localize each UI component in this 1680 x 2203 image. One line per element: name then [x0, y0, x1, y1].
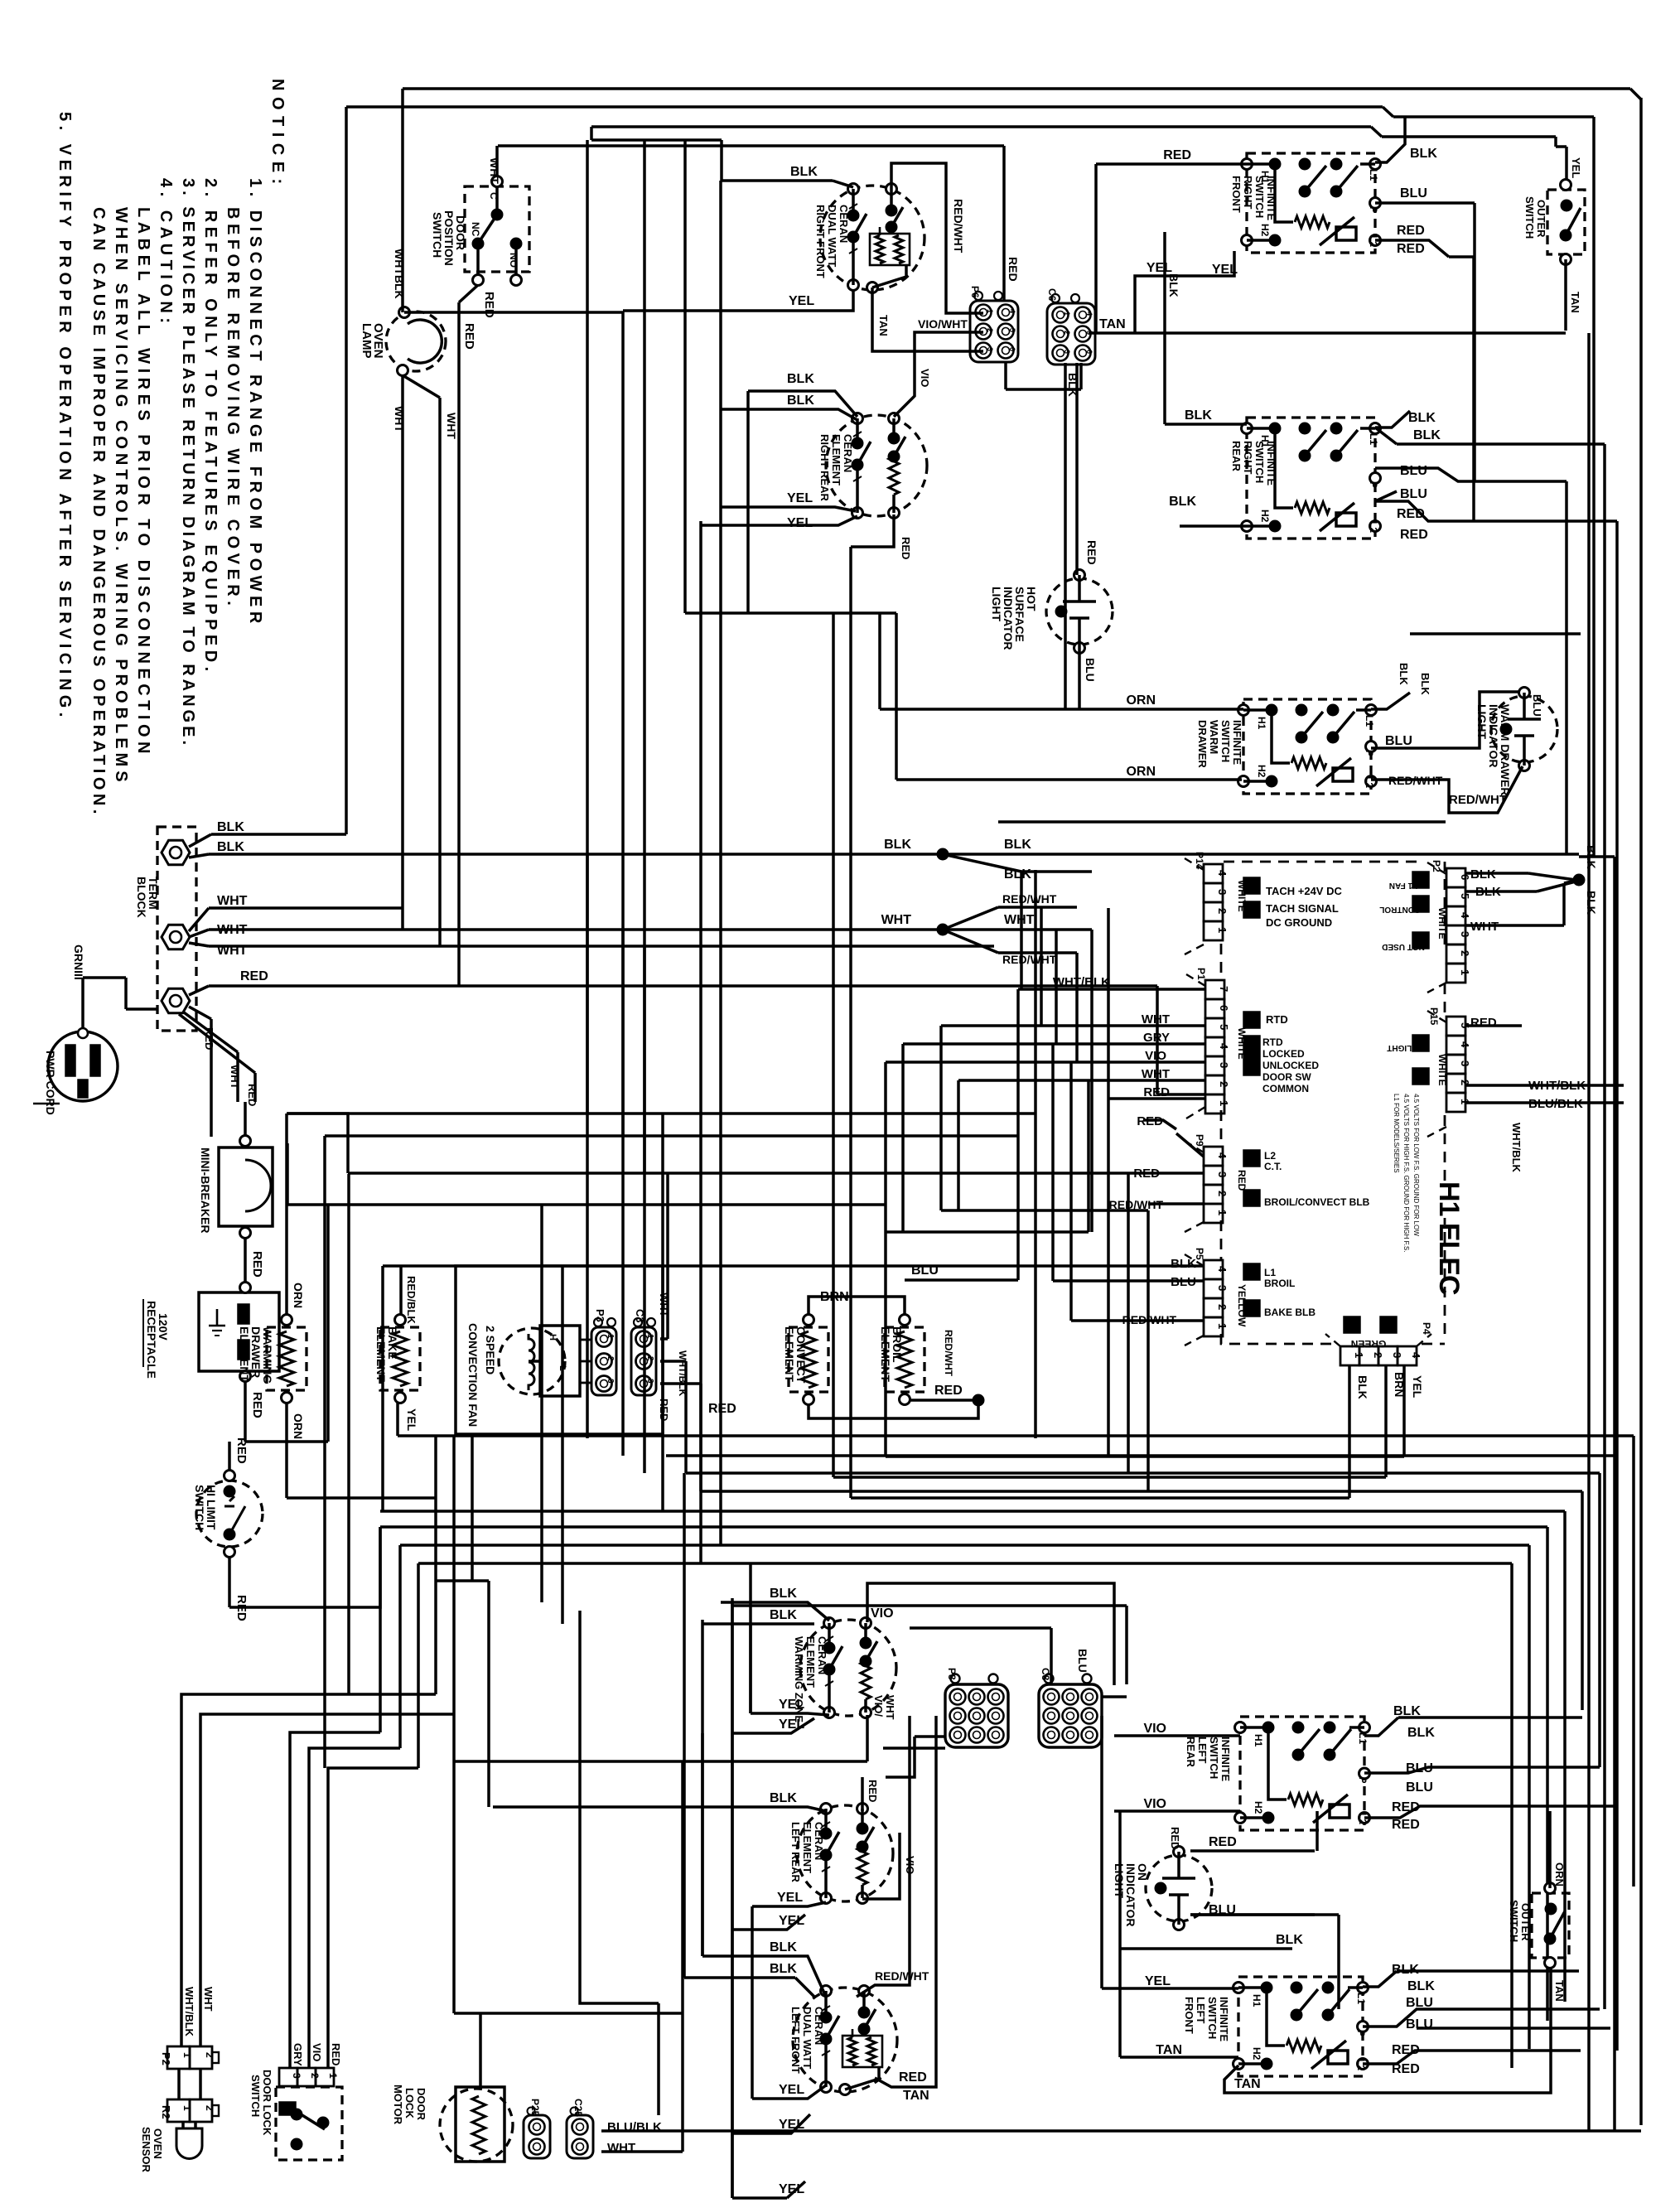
svg-text:CAN CAUSE IMPROPER AND DANGERO: CAN CAUSE IMPROPER AND DANGEROUS OPERATI… [89, 207, 108, 818]
svg-text:4: 4 [1008, 309, 1016, 313]
svg-text:1: 1 [986, 309, 994, 313]
svg-text:1: 1 [645, 1334, 654, 1339]
svg-text:ELEMENT: ELEMENT [804, 1636, 817, 1688]
svg-text:BLK: BLK [1407, 1726, 1435, 1740]
svg-text:CERAN: CERAN [813, 1822, 825, 1860]
svg-text:NOTICE:: NOTICE: [268, 79, 287, 191]
svg-text:4: 4 [1410, 1352, 1422, 1359]
svg-text:BLU: BLU [1084, 658, 1097, 682]
svg-text:5: 5 [1218, 1024, 1230, 1030]
svg-text:P: P [1364, 750, 1375, 756]
svg-text:LABEL ALL WIRES PRIOR TO DISCO: LABEL ALL WIRES PRIOR TO DISCONNECTION [134, 207, 152, 758]
svg-text:BLK: BLK [1004, 838, 1031, 852]
svg-text:H1: H1 [1256, 717, 1267, 730]
svg-text:BLU: BLU [1400, 186, 1427, 200]
svg-text:L1: L1 [1364, 715, 1375, 727]
svg-text:YEL: YEL [779, 2083, 804, 2097]
svg-text:TAN: TAN [1156, 2043, 1182, 2057]
svg-text:LEFT: LEFT [1196, 1737, 1209, 1764]
svg-text:WHT/BLK: WHT/BLK [1053, 975, 1110, 989]
svg-text:P: P [1357, 1777, 1369, 1784]
svg-text:MOTOR: MOTOR [392, 2085, 404, 2125]
svg-text:BLK: BLK [1066, 373, 1079, 397]
svg-text:GRY: GRY [292, 2043, 304, 2066]
svg-text:BEFORE REMOVING WIRE COVER.: BEFORE REMOVING WIRE COVER. [224, 207, 242, 610]
svg-text:BLU: BLU [1400, 464, 1427, 478]
svg-text:VIO: VIO [871, 1606, 894, 1621]
svg-text:VIO: VIO [1143, 1722, 1166, 1736]
svg-text:ELEMENT: ELEMENT [801, 1822, 813, 1873]
svg-text:2: 2 [1459, 950, 1471, 956]
svg-text:BROIL/CONVECT BLB: BROIL/CONVECT BLB [1264, 1196, 1370, 1208]
svg-text:DUAL WATT: DUAL WATT [801, 2007, 813, 2069]
svg-text:RED/WHT: RED/WHT [943, 1330, 954, 1377]
svg-text:RED: RED [1397, 224, 1425, 238]
svg-text:BLK: BLK [217, 820, 244, 834]
svg-text:CONVECTION FAN: CONVECTION FAN [466, 1323, 480, 1427]
svg-text:VIO/: VIO/ [872, 1695, 885, 1717]
svg-text:LAMP: LAMP [360, 323, 374, 359]
svg-text:BLK: BLK [770, 1962, 797, 1976]
svg-text:YEL: YEL [1145, 1974, 1171, 1988]
svg-text:INFINITE: INFINITE [1231, 720, 1243, 765]
svg-text:3: 3 [1459, 931, 1471, 937]
svg-text:BLK: BLK [1171, 1257, 1196, 1271]
svg-text:TAN: TAN [1234, 2077, 1261, 2091]
svg-text:2. REFER ONLY TO FEATURES EQUI: 2. REFER ONLY TO FEATURES EQUIPPED. [201, 178, 220, 676]
svg-text:VIO: VIO [919, 369, 931, 387]
svg-text:RED: RED [1392, 2062, 1420, 2076]
svg-text:RED/BLK: RED/BLK [405, 1276, 418, 1324]
svg-text:WHT: WHT [488, 157, 501, 184]
svg-text:FRONT: FRONT [1183, 1997, 1195, 2034]
svg-text:L1: L1 [1368, 169, 1379, 181]
svg-text:L1 FOR MODELS/SERIES: L1 FOR MODELS/SERIES [1393, 1094, 1400, 1173]
svg-text:RIGHT: RIGHT [1242, 176, 1254, 210]
svg-text:L1 FAN: L1 FAN [1389, 881, 1417, 890]
svg-text:P8: P8 [946, 1668, 958, 1680]
svg-text:WHT/BLK: WHT/BLK [1528, 1079, 1586, 1093]
svg-text:H2: H2 [1256, 765, 1267, 778]
svg-text:RIGHT: RIGHT [1242, 441, 1254, 475]
svg-text:RED/WHT: RED/WHT [875, 1969, 929, 1983]
svg-text:LOCKED: LOCKED [1262, 1048, 1305, 1060]
svg-text:BAKE BLB: BAKE BLB [1264, 1307, 1316, 1318]
svg-text:WHT: WHT [1004, 913, 1035, 927]
svg-text:BLK: BLK [1167, 273, 1180, 297]
svg-text:4: 4 [1216, 1152, 1229, 1159]
svg-text:SWITCH: SWITCH [431, 212, 444, 258]
svg-text:BLK: BLK [770, 1608, 797, 1622]
svg-text:ELEMENT: ELEMENT [830, 434, 842, 486]
svg-text:RED: RED [1392, 1818, 1420, 1832]
svg-text:DC GROUND: DC GROUND [1266, 916, 1332, 929]
svg-text:BLU: BLU [1400, 487, 1427, 501]
svg-text:BLK: BLK [1419, 673, 1431, 695]
svg-text:WHT: WHT [445, 413, 458, 439]
svg-text:RED: RED [934, 1384, 963, 1398]
svg-text:CERAN: CERAN [816, 1636, 828, 1674]
svg-text:BLK: BLK [884, 838, 911, 852]
svg-text:SWITCH: SWITCH [249, 2075, 262, 2117]
svg-text:INFINITE: INFINITE [1265, 441, 1277, 486]
svg-text:BLU: BLU [911, 1263, 939, 1278]
svg-text:BLU: BLU [1406, 1780, 1433, 1795]
svg-text:BLOCK: BLOCK [135, 877, 148, 918]
svg-text:2: 2 [1218, 1081, 1230, 1087]
svg-text:RED: RED [1163, 148, 1191, 162]
svg-text:4: 4 [1085, 312, 1093, 316]
svg-text:WHT: WHT [217, 894, 248, 908]
svg-text:P1: P1 [1195, 968, 1207, 980]
svg-text:6: 6 [1085, 350, 1093, 354]
svg-text:WHEN SERVICING CONTROLS. WIRIN: WHEN SERVICING CONTROLS. WIRING PROBLEMS [112, 207, 130, 786]
svg-text:YEL: YEL [779, 1698, 804, 1712]
svg-text:WHTBLK: WHTBLK [393, 249, 406, 299]
svg-text:SWITCH: SWITCH [1208, 1737, 1220, 1779]
svg-text:RED: RED [1169, 1827, 1181, 1849]
svg-text:BLU/BLK: BLU/BLK [1528, 1097, 1583, 1111]
svg-text:5. VERIFY PROPER OPERATION AFT: 5. VERIFY PROPER OPERATION AFTER SERVICI… [56, 112, 74, 722]
svg-text:WHITE: WHITE [1436, 907, 1448, 940]
svg-text:WHT: WHT [881, 913, 912, 927]
svg-text:SWITCH: SWITCH [1253, 441, 1266, 483]
svg-text:4: 4 [1216, 1266, 1229, 1273]
svg-text:RED/WHT: RED/WHT [952, 199, 965, 254]
svg-text:WHT: WHT [202, 1987, 215, 2012]
svg-text:RED: RED [1400, 528, 1428, 542]
svg-text:RED: RED [1007, 257, 1020, 282]
svg-text:BLK: BLK [1004, 867, 1031, 882]
svg-text:BLK: BLK [1407, 1979, 1435, 1993]
svg-text:C: C [488, 192, 500, 200]
svg-text:H1: H1 [1251, 1994, 1262, 2007]
svg-text:YEL: YEL [1411, 1375, 1424, 1399]
svg-text:2: 2 [645, 1356, 654, 1361]
svg-text:BLK: BLK [790, 165, 818, 179]
svg-text:WHITE: WHITE [1436, 1054, 1448, 1086]
svg-text:ORN: ORN [1553, 1862, 1566, 1887]
svg-text:BLK: BLK [1169, 495, 1196, 509]
svg-text:P: P [1355, 2030, 1367, 2036]
svg-text:H2: H2 [1259, 224, 1271, 237]
svg-text:TAN: TAN [877, 315, 890, 336]
svg-text:RED: RED [899, 2070, 927, 2085]
svg-text:CONTROL: CONTROL [1379, 905, 1420, 914]
svg-text:3: 3 [1218, 1062, 1230, 1068]
svg-text:3. SERVICER PLEASE RETURN DIAG: 3. SERVICER PLEASE RETURN DIAGRAM TO RAN… [179, 178, 197, 748]
svg-text:L1: L1 [1368, 433, 1379, 445]
svg-text:1. DISCONNECT RANGE FROM POWER: 1. DISCONNECT RANGE FROM POWER [246, 178, 264, 628]
svg-text:H2: H2 [1251, 2047, 1262, 2060]
svg-text:CERAN: CERAN [838, 205, 850, 243]
svg-text:RED: RED [234, 1437, 249, 1464]
svg-text:4.5 VOLTS FOR HIGH F.S. GROUND: 4.5 VOLTS FOR HIGH F.S. GROUND FOR HIGH … [1402, 1094, 1410, 1252]
svg-text:WHT/BLK: WHT/BLK [183, 1987, 196, 2037]
svg-text:TAN: TAN [1099, 317, 1126, 331]
svg-text:P: P [1368, 481, 1379, 488]
svg-text:1: 1 [1216, 927, 1229, 933]
svg-text:RED: RED [708, 1402, 736, 1416]
svg-text:3: 3 [645, 1379, 654, 1384]
svg-text:P2: P2 [160, 2052, 172, 2065]
svg-text:GRNIII: GRNIII [72, 944, 85, 980]
svg-text:6: 6 [1008, 347, 1016, 351]
svg-text:3: 3 [1216, 1172, 1229, 1177]
svg-text:P4: P4 [1421, 1322, 1432, 1335]
svg-text:BLK: BLK [1585, 891, 1598, 915]
svg-text:4: 4 [1459, 1041, 1471, 1048]
svg-text:RED: RED [1085, 540, 1098, 565]
svg-text:BLK: BLK [217, 840, 244, 854]
svg-text:SWITCH: SWITCH [1253, 176, 1266, 218]
svg-text:1: 1 [181, 2105, 193, 2111]
svg-text:5: 5 [1459, 893, 1471, 899]
svg-text:2: 2 [1063, 331, 1071, 335]
svg-text:DOOR LOCK: DOOR LOCK [261, 2070, 273, 2136]
svg-text:SWITCH: SWITCH [1206, 1997, 1219, 2039]
svg-text:TAN: TAN [1553, 1980, 1566, 2002]
svg-text:CERAN: CERAN [813, 2007, 825, 2045]
svg-text:RIGHT REAR: RIGHT REAR [818, 434, 831, 502]
svg-text:RIGHT FRONT: RIGHT FRONT [814, 205, 827, 278]
svg-text:3: 3 [1459, 1060, 1471, 1066]
svg-text:TAN: TAN [1569, 292, 1581, 313]
svg-text:INFINITE: INFINITE [1265, 176, 1277, 220]
svg-text:ORN: ORN [292, 1283, 305, 1308]
svg-text:RED: RED [246, 1084, 258, 1106]
svg-text:RED: RED [203, 1027, 215, 1050]
svg-text:L2: L2 [1368, 521, 1379, 533]
svg-text:L1: L1 [1355, 1993, 1367, 2004]
svg-text:H1 ELEC: H1 ELEC [1433, 1181, 1465, 1295]
svg-text:TACH +24V DC: TACH +24V DC [1266, 885, 1342, 897]
svg-text:RED: RED [250, 1251, 264, 1278]
svg-text:YEL: YEL [777, 1891, 803, 1905]
svg-text:P: P [1368, 206, 1379, 213]
svg-text:YEL: YEL [789, 294, 814, 308]
svg-text:WHT: WHT [229, 1065, 241, 1089]
svg-text:L1: L1 [1357, 1732, 1369, 1744]
svg-text:3: 3 [1063, 350, 1071, 354]
svg-text:BLK: BLK [1356, 1375, 1369, 1399]
svg-text:3: 3 [606, 1379, 615, 1384]
svg-text:VIO: VIO [1143, 1797, 1166, 1811]
svg-text:BLK: BLK [787, 372, 814, 386]
svg-text:R2: R2 [160, 2105, 172, 2119]
svg-text:INFINITE: INFINITE [1218, 1997, 1230, 2041]
svg-text:L2: L2 [1364, 776, 1375, 788]
svg-text:COMMON: COMMON [1262, 1083, 1309, 1094]
svg-text:3: 3 [986, 347, 994, 351]
svg-text:RECEPTACLE: RECEPTACLE [145, 1301, 158, 1379]
svg-text:DOOR: DOOR [415, 2088, 427, 2121]
svg-text:LOCK: LOCK [403, 2088, 416, 2118]
svg-text:WARM: WARM [1208, 720, 1220, 754]
svg-text:6: 6 [1459, 874, 1471, 880]
svg-text:BLK: BLK [770, 1940, 797, 1954]
svg-text:P9: P9 [1194, 1134, 1205, 1147]
svg-text:C8: C8 [1040, 1668, 1051, 1681]
svg-text:TACH SIGNAL: TACH SIGNAL [1266, 902, 1339, 915]
svg-text:SWITCH: SWITCH [1219, 720, 1232, 762]
svg-text:NO: NO [508, 253, 519, 268]
svg-text:BLK: BLK [787, 394, 814, 408]
svg-text:RED: RED [1209, 1835, 1237, 1849]
svg-text:2 SPEED: 2 SPEED [484, 1326, 497, 1374]
svg-text:OUTER: OUTER [1535, 200, 1547, 238]
svg-text:BLK: BLK [770, 1791, 797, 1805]
svg-text:DRAWER: DRAWER [1196, 720, 1209, 768]
svg-text:1: 1 [1063, 312, 1071, 316]
svg-text:ORN: ORN [1126, 693, 1156, 708]
svg-text:1: 1 [327, 2073, 339, 2079]
svg-text:LEFT FRONT: LEFT FRONT [789, 2007, 802, 2074]
svg-text:3: 3 [1216, 889, 1229, 895]
svg-text:YEL: YEL [779, 1717, 804, 1732]
svg-text:BLU: BLU [1385, 734, 1412, 748]
svg-text:BLK: BLK [1413, 428, 1441, 442]
svg-text:ELEMENT: ELEMENT [238, 1326, 251, 1382]
svg-text:RED: RED [330, 2043, 342, 2065]
svg-text:RED: RED [1397, 242, 1425, 256]
svg-text:5: 5 [1008, 328, 1016, 332]
svg-text:OUTER: OUTER [1519, 1903, 1532, 1941]
svg-text:4: 4 [1218, 1043, 1230, 1050]
svg-text:BRN: BRN [1393, 1372, 1406, 1397]
svg-text:SENSOR: SENSOR [140, 2127, 152, 2173]
svg-text:RED: RED [867, 1780, 879, 1802]
svg-text:2: 2 [1216, 908, 1229, 914]
svg-text:2: 2 [986, 328, 994, 332]
svg-text:WHT: WHT [217, 944, 248, 958]
svg-text:6: 6 [1218, 1005, 1230, 1011]
svg-text:H2: H2 [1253, 1801, 1264, 1814]
svg-text:4.5 VOLTS FOR LOW F.S. GROUND: 4.5 VOLTS FOR LOW F.S. GROUND FOR LOW [1412, 1094, 1420, 1236]
svg-text:SWITCH: SWITCH [1523, 196, 1536, 239]
svg-text:L-LIGHT: L-LIGHT [1387, 1043, 1419, 1052]
svg-text:7: 7 [1218, 986, 1230, 992]
svg-text:LEFT REAR: LEFT REAR [789, 1822, 802, 1883]
svg-text:4: 4 [1216, 870, 1229, 877]
svg-text:REAR: REAR [1230, 441, 1243, 471]
svg-text:1: 1 [606, 1334, 615, 1339]
svg-text:2: 2 [606, 1356, 615, 1361]
svg-text:P3: P3 [594, 1309, 606, 1322]
svg-text:L1: L1 [1264, 1267, 1276, 1278]
svg-text:ELEMENT: ELEMENT [374, 1326, 388, 1382]
svg-text:BLK: BLK [770, 1587, 797, 1601]
svg-text:H1: H1 [1253, 1734, 1264, 1747]
svg-text:L2: L2 [1264, 1150, 1276, 1162]
svg-text:1: 1 [1216, 1323, 1229, 1329]
svg-text:ELEMENT: ELEMENT [783, 1326, 796, 1382]
svg-text:BROIL: BROIL [1264, 1278, 1295, 1289]
svg-text:4. CAUTION:: 4. CAUTION: [157, 178, 175, 328]
svg-text:RTD: RTD [1266, 1013, 1288, 1026]
svg-text:P6: P6 [969, 286, 981, 298]
svg-text:VIO: VIO [311, 2043, 323, 2061]
svg-text:WHT: WHT [217, 923, 248, 937]
svg-text:BLU: BLU [1076, 1649, 1089, 1673]
svg-text:DUAL WATT: DUAL WATT [826, 205, 838, 267]
svg-text:C.T.: C.T. [1264, 1161, 1282, 1172]
svg-text:YEL: YEL [787, 516, 813, 530]
svg-text:PWR CORD: PWR CORD [44, 1051, 57, 1115]
svg-text:ORN: ORN [1126, 765, 1156, 779]
svg-text:BLK: BLK [1185, 408, 1212, 423]
svg-text:C6: C6 [1046, 288, 1058, 302]
svg-text:H2: H2 [1259, 510, 1271, 523]
svg-text:TAN: TAN [903, 2089, 929, 2103]
svg-text:RTD: RTD [1262, 1036, 1283, 1048]
svg-text:WHT/BLK: WHT/BLK [1510, 1123, 1523, 1173]
svg-text:LEFT: LEFT [1195, 1997, 1207, 2024]
svg-text:DOOR SW: DOOR SW [1262, 1071, 1311, 1083]
svg-text:RED: RED [900, 537, 912, 559]
svg-text:WHT/BLK: WHT/BLK [677, 1350, 688, 1397]
svg-text:RED: RED [462, 323, 476, 350]
svg-text:H: H [548, 1334, 558, 1341]
svg-text:BLU: BLU [1531, 694, 1543, 717]
svg-text:LIGHT: LIGHT [990, 587, 1003, 621]
svg-text:GREEN: GREEN [1351, 1338, 1387, 1350]
svg-text:P14: P14 [1194, 852, 1205, 870]
svg-text:RED: RED [482, 292, 496, 318]
svg-text:2: 2 [1216, 1191, 1229, 1196]
svg-text:RED: RED [1236, 1170, 1248, 1191]
svg-text:NOT USED: NOT USED [1382, 942, 1425, 951]
svg-text:RED: RED [250, 1392, 264, 1418]
svg-text:P15: P15 [1428, 1007, 1440, 1026]
svg-text:1: 1 [181, 2052, 193, 2058]
svg-text:ORN: ORN [292, 1413, 305, 1439]
svg-text:1: 1 [1459, 969, 1471, 975]
svg-text:SWITCH: SWITCH [193, 1485, 206, 1530]
svg-text:FRONT: FRONT [1230, 176, 1243, 213]
svg-text:RED/WHT: RED/WHT [1002, 953, 1057, 966]
svg-text:YEL: YEL [1570, 157, 1582, 178]
svg-text:REAR: REAR [1185, 1737, 1197, 1767]
svg-text:MINI-BREAKER: MINI-BREAKER [199, 1147, 212, 1233]
svg-text:RED: RED [1470, 1016, 1497, 1030]
svg-text:2: 2 [1216, 1304, 1229, 1310]
svg-text:RED/WHT: RED/WHT [1002, 892, 1057, 906]
svg-text:1: 1 [1218, 1100, 1230, 1106]
svg-text:LIGHT: LIGHT [1475, 704, 1489, 739]
svg-text:VIO/WHT: VIO/WHT [918, 317, 968, 331]
svg-text:YEL: YEL [787, 491, 813, 505]
svg-text:BLK: BLK [1398, 663, 1410, 685]
svg-text:INFINITE: INFINITE [1219, 1737, 1232, 1781]
svg-text:RED/WHT: RED/WHT [1449, 793, 1507, 807]
svg-text:UNLOCKED: UNLOCKED [1262, 1060, 1319, 1071]
svg-text:BLK: BLK [1410, 147, 1437, 161]
svg-text:BLK: BLK [1408, 411, 1436, 425]
svg-text:YEL: YEL [405, 1408, 418, 1432]
svg-text:CERAN: CERAN [842, 434, 854, 472]
svg-text:WHT: WHT [393, 406, 406, 432]
svg-text:OVEN: OVEN [152, 2128, 164, 2159]
svg-text:1: 1 [1216, 1210, 1229, 1215]
svg-text:4: 4 [1459, 912, 1471, 919]
svg-text:P2: P2 [1431, 860, 1442, 872]
svg-text:3: 3 [1216, 1285, 1229, 1291]
svg-text:NC: NC [470, 222, 481, 237]
svg-text:RED: RED [240, 969, 268, 983]
svg-text:BLK: BLK [1276, 1933, 1303, 1947]
svg-text:WHT: WHT [884, 1695, 896, 1720]
